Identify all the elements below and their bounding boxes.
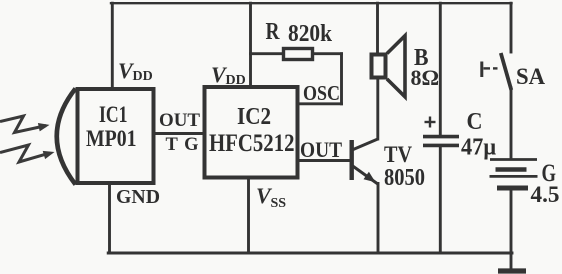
wire OSC loop horizontal to IC2 — [298, 102, 342, 105]
ground bar — [498, 268, 526, 273]
svg-text:SS: SS — [271, 196, 287, 211]
wire battery to bottom rail — [510, 189, 513, 253]
svg-text:8Ω: 8Ω — [411, 65, 440, 90]
wire IC1 OUT to IC2 TG — [154, 132, 204, 135]
battery G plate 2 short thick — [496, 167, 527, 171]
wire IC1 GND to bottom rail — [108, 184, 111, 253]
label Vss of IC2 — [256, 183, 286, 211]
label Vdd of IC1 — [118, 58, 153, 84]
svg-text:MP01: MP01 — [86, 126, 137, 151]
wire capacitor to bottom rail — [439, 146, 442, 253]
wire top rail to speaker — [376, 3, 379, 54]
capacitor C bottom plate — [423, 144, 459, 148]
IC2 HFC5212 body — [205, 87, 298, 178]
wire left vertical to IC1 Vdd — [111, 3, 114, 88]
battery G plate 3 long — [490, 175, 538, 178]
wire top rail to switch — [510, 3, 513, 52]
wire IC2 OUT to base — [298, 159, 350, 162]
wire speaker to collector — [376, 79, 379, 140]
transistor collector lead — [352, 139, 378, 150]
svg-text:GND: GND — [116, 186, 160, 208]
svg-text:820k: 820k — [288, 21, 333, 47]
svg-text:IC2: IC2 — [237, 104, 271, 130]
capacitor plus sign — [425, 117, 436, 128]
resistor R body — [284, 49, 313, 60]
wire switch to battery — [510, 88, 513, 159]
IR arrow upper — [0, 116, 46, 133]
IR arrow lower — [0, 145, 50, 162]
switch SA blade — [501, 53, 512, 90]
svg-text:47μ: 47μ — [461, 135, 496, 161]
label Vdd of IC2 — [211, 62, 246, 88]
transistor emitter lead — [352, 166, 378, 185]
wire bottom rail — [108, 252, 512, 255]
svg-text:DD: DD — [226, 73, 246, 88]
wire top rail to capacitor — [439, 3, 442, 136]
battery G plate 4 short thick — [497, 186, 528, 191]
battery G plate 1 long — [490, 158, 537, 161]
svg-text:IC1: IC1 — [99, 102, 128, 127]
capacitor C top plate — [423, 135, 459, 139]
wire ground stub — [510, 253, 513, 269]
wire top rail — [111, 2, 512, 4]
wire Vdd to resistor left — [251, 52, 284, 55]
svg-text:OUT: OUT — [300, 137, 342, 162]
svg-text:DD: DD — [133, 69, 153, 84]
svg-text:HFC5212: HFC5212 — [209, 130, 295, 157]
speaker B cone — [387, 36, 405, 97]
svg-text:R: R — [266, 19, 281, 45]
wire IC2 Vss to bottom rail — [247, 178, 250, 253]
transistor emitter arrowhead — [364, 172, 376, 183]
speaker B driver box — [372, 55, 386, 78]
svg-text:C: C — [467, 109, 483, 135]
transistor TV base bar — [350, 140, 354, 180]
wire OSC loop vertical — [340, 54, 343, 104]
IC1 MP01 sensor body — [78, 89, 154, 183]
svg-text:4.5: 4.5 — [531, 182, 560, 207]
switch SA actuator mark — [482, 62, 498, 78]
IC1 lens arc — [57, 89, 76, 185]
svg-text:TV: TV — [384, 142, 412, 167]
svg-text:SA: SA — [516, 64, 545, 89]
wire IC2 Vdd vertical — [249, 3, 252, 86]
svg-text:8050: 8050 — [384, 165, 425, 191]
wire emitter to bottom rail — [377, 184, 380, 254]
svg-text:OUT: OUT — [159, 111, 201, 131]
wire resistor right — [314, 52, 342, 55]
svg-text:OSC: OSC — [303, 81, 340, 105]
